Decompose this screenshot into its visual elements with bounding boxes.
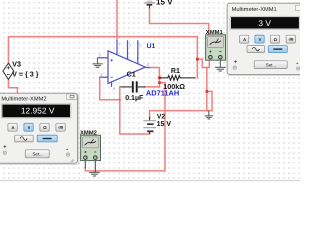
svg-text:+: +	[234, 59, 237, 65]
canvas background with dot grid	[0, 0, 300, 181]
svg-text:12.952 V: 12.952 V	[21, 106, 55, 116]
svg-text:Ω: Ω	[274, 37, 277, 42]
svg-text:V3: V3	[12, 60, 21, 68]
junction dot at output/C1-XMM2	[158, 81, 161, 84]
wire V2 plus to ground node	[150, 111, 212, 118]
svg-text:15 V: 15 V	[156, 0, 173, 6]
svg-text:R1: R1	[171, 66, 180, 74]
wire V3 minus going under window	[8, 80, 17, 94]
svg-text:U1: U1	[147, 42, 156, 50]
svg-text:+: +	[3, 144, 6, 150]
svg-text:A: A	[243, 37, 246, 42]
svg-text:Multimeter-XMM1: Multimeter-XMM1	[232, 6, 277, 13]
svg-text:Set...: Set...	[266, 63, 276, 68]
junction dot at ground drop	[206, 90, 209, 93]
junction dot at output/R1	[158, 76, 161, 79]
svg-text:0.1µF: 0.1µF	[125, 94, 143, 102]
15V supply battery (cut at top)	[144, 1, 155, 8]
svg-text:V = { 3 }: V = { 3 }	[12, 70, 38, 78]
svg-text:5: 5	[139, 43, 141, 47]
multimeter icon XMM1	[206, 35, 226, 60]
wire 15V supply to XMM1 top	[150, 8, 209, 35]
resistor R1	[159, 76, 195, 81]
multimeter icon XMM2	[81, 135, 101, 160]
svg-text:Set...: Set...	[33, 152, 43, 157]
svg-text:XMM2: XMM2	[80, 129, 97, 136]
svg-text:-: -	[66, 146, 68, 153]
svg-text:15 V: 15 V	[157, 120, 172, 128]
svg-text:4: 4	[113, 87, 115, 91]
multimeter window XMM1	[227, 3, 308, 76]
svg-text:V: V	[259, 37, 262, 42]
wire output node to C1 right lead	[145, 86, 159, 88]
svg-text:dB: dB	[289, 38, 294, 42]
svg-text:C1: C1	[127, 70, 136, 78]
source V3 diamond	[3, 63, 14, 79]
wire small loop at ground node	[207, 91, 212, 110]
svg-text:100kΩ: 100kΩ	[163, 82, 185, 90]
XMM2 terminal stubs	[85, 161, 95, 173]
svg-text:1: 1	[129, 43, 131, 47]
svg-text:3: 3	[99, 53, 101, 57]
multimeter window XMM2	[0, 93, 79, 165]
wire V+ supply feed to pin7	[116, 0, 118, 40]
svg-text:Multimeter-XMM2: Multimeter-XMM2	[1, 95, 46, 102]
svg-text:3 V: 3 V	[258, 18, 271, 28]
op-amp pin number labels	[99, 43, 149, 91]
battery V2	[143, 117, 156, 134]
op-amp input polarity marks	[110, 59, 113, 77]
wire feedback return to inverting input	[100, 77, 120, 100]
svg-text:2: 2	[100, 73, 102, 77]
svg-text:7: 7	[119, 43, 121, 47]
svg-text:-: -	[296, 60, 298, 67]
svg-text:6: 6	[147, 63, 149, 67]
junction dot at V3 line / XMM1	[196, 58, 199, 61]
wire op-amp output to feedback node	[150, 68, 160, 87]
op-amp U1 triangle	[97, 40, 149, 87]
svg-text:A: A	[12, 125, 15, 130]
svg-text:XMM1: XMM1	[206, 28, 223, 35]
junction dot at feedback node	[119, 99, 121, 101]
wire long drop from XMM1 plus node to ground node	[206, 68, 208, 111]
wire C1 left lead down to V2 minus	[120, 87, 150, 134]
svg-text:V2: V2	[157, 112, 165, 120]
ground at supply mid node	[205, 111, 214, 119]
ground below XMM2	[89, 172, 100, 176]
svg-text:V: V	[28, 125, 31, 130]
svg-text:Ω: Ω	[43, 125, 46, 130]
svg-text:dB: dB	[58, 126, 63, 130]
ground at op-amp non-inverting input	[92, 58, 102, 68]
ground below XMM1	[215, 60, 226, 71]
wire output branch down to XMM2 plus	[85, 83, 165, 171]
wire junction staircase to XMM1 plus terminal	[197, 59, 209, 67]
wire V3 plus up and across to R1 right / XMM1 node	[8, 37, 197, 78]
capacitor C1	[121, 81, 146, 92]
